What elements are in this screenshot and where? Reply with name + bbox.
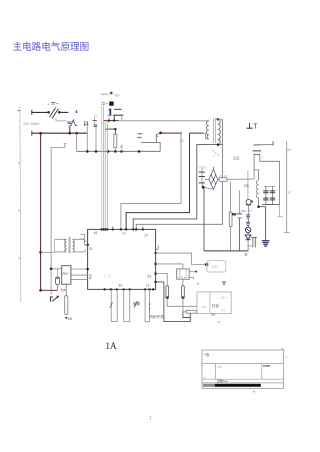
relay coil L2 lower winding (254, 154, 260, 155)
svg-text:32: 32 (89, 247, 93, 251)
T2 left edge (54, 239, 56, 252)
node (138, 150, 141, 153)
svg-text:(+V: (+V (240, 209, 244, 213)
S4 dashes (149, 303, 151, 312)
svg-text:灯丝: 灯丝 (212, 303, 219, 308)
capacitor C6 cylinder (182, 286, 185, 299)
svg-text:1A: 1A (105, 341, 117, 351)
U2 bottom pin wire (65, 284, 67, 296)
svg-text:A2: A2 (180, 139, 184, 143)
wire (260, 155, 280, 205)
node (257, 205, 260, 208)
wire (259, 207, 266, 241)
svg-text:A: A (285, 355, 287, 359)
K1 pin 2 (189, 277, 193, 279)
capacitor C2 (93, 120, 97, 122)
node (202, 186, 205, 189)
rail tick 2 (18, 162, 21, 164)
wire (114, 129, 116, 134)
diode D3 (245, 235, 251, 240)
light link (108, 116, 110, 121)
node (68, 132, 71, 135)
wire pin out (156, 274, 168, 286)
resistor R2 (219, 178, 227, 181)
node 18 (65, 317, 67, 319)
svg-text:220 50Hz: 220 50Hz (23, 122, 39, 126)
left border rail (19, 107, 22, 303)
svg-text:T值: T值 (204, 352, 210, 357)
switch loop S4 (145, 289, 150, 321)
S2 blade (110, 302, 113, 308)
bars beside 1 (114, 109, 122, 110)
tube box B2 (197, 292, 231, 314)
lamp H1 (245, 227, 250, 232)
divider (202, 382, 284, 384)
svg-text:九B: 九B (61, 287, 66, 292)
T2 right lead top (73, 239, 88, 245)
svg-text:×)(=: ×)(= (114, 93, 120, 97)
wire T2 feed (41, 251, 55, 253)
T2 right winding (73, 239, 75, 252)
ground T symbol (247, 127, 253, 129)
battery bars (138, 132, 143, 135)
node (95, 150, 98, 153)
left vertical wire (maroon) (40, 133, 42, 290)
svg-text:X: X (244, 252, 247, 257)
capacitor C4 (238, 190, 240, 213)
svg-text:耳显: 耳显 (233, 156, 240, 160)
wire bottom rail (204, 250, 248, 252)
svg-text:凡M: 凡M (62, 272, 68, 276)
svg-text:≡a: ≡a (202, 305, 206, 309)
relay coil L2 top winding (254, 145, 260, 146)
probe arrow (50, 297, 53, 302)
svg-text:+VDD: +VDD (199, 165, 207, 169)
T2 core (68, 237, 70, 254)
bus B wire (77, 150, 161, 152)
wire L to bus B start (51, 144, 65, 295)
transformer T2 left lead top (55, 238, 66, 240)
node (39, 251, 42, 254)
wire 3 nested (133, 145, 222, 230)
node (75, 132, 78, 135)
node (217, 118, 220, 121)
node (47, 111, 50, 114)
capacitor C1 (84, 121, 86, 126)
wire 2 nested dark (126, 133, 189, 229)
svg-text:同步开关: 同步开关 (149, 314, 164, 319)
wire (230, 227, 232, 251)
pin stub (112, 226, 114, 229)
dot (253, 391, 255, 393)
rounded box K2 (207, 261, 226, 272)
bus B corner up (141, 143, 160, 152)
scale bar gray (203, 384, 215, 387)
tick (181, 131, 183, 135)
svg-text:1ΩL: 1ΩL (244, 184, 250, 188)
divider (215, 364, 217, 380)
diode chain wire (247, 171, 249, 200)
node (159, 132, 162, 135)
cap bank top bus (264, 185, 275, 187)
svg-text:T: T (253, 124, 258, 131)
svg-text:电源: 电源 (133, 301, 141, 306)
block U2 (62, 266, 71, 285)
switch linkage wire (56, 118, 67, 121)
corner tick (281, 348, 284, 350)
svg-text:16: 16 (94, 231, 98, 235)
divider (202, 363, 284, 365)
switch S1 blade 2 (52, 109, 58, 119)
wire (190, 132, 204, 134)
svg-text:18: 18 (68, 317, 72, 321)
wire (247, 240, 249, 251)
node (86, 150, 89, 153)
F tick (156, 134, 160, 143)
wire (247, 205, 249, 214)
wire (218, 118, 223, 120)
divider (202, 378, 284, 380)
K1 pin (189, 271, 195, 273)
node (113, 119, 115, 121)
bar (246, 204, 251, 206)
svg-text:PWM: PWM (263, 364, 271, 368)
resistor R3 drop (230, 181, 232, 212)
bracket legs (251, 236, 257, 238)
ribbon wire 2 (102, 106, 104, 230)
symbol bars row (102, 101, 106, 104)
wire maroon to transformer (161, 132, 182, 134)
wire (218, 179, 219, 181)
node (114, 128, 116, 130)
C8 plates (270, 191, 275, 200)
capacitor C3 stack (201, 169, 203, 172)
stub (121, 148, 123, 151)
node (108, 119, 110, 121)
switch loop S3 (124, 289, 130, 321)
inductor L3 vertical winding (256, 180, 258, 198)
wire (247, 226, 249, 228)
resistor R3 (229, 212, 232, 226)
rail tick 3 (18, 210, 21, 212)
capacitor C9 cylinder (56, 277, 60, 284)
svg-text:GN: GN (218, 365, 222, 369)
transformer T1 right winding (218, 119, 221, 144)
svg-text:1 2): 1 2) (104, 273, 112, 278)
left bracket wire (80, 234, 84, 239)
wire (57, 269, 59, 277)
wire (205, 179, 209, 181)
right pin nodes (154, 252, 157, 283)
node (58, 111, 61, 114)
transformer T1 primary lead top (119, 120, 209, 122)
svg-text:1: 1 (149, 416, 152, 422)
transistor Q1 (246, 199, 251, 204)
wire (32, 111, 48, 113)
transformer T1 core (213, 118, 215, 143)
wire 1 nested (121, 134, 181, 229)
wire (260, 144, 273, 146)
wire (258, 198, 260, 207)
svg-text:2W: 2W (211, 313, 216, 317)
title block outer (202, 350, 284, 388)
wire bridge down (203, 187, 205, 251)
tick (64, 143, 67, 145)
svg-text:E: E (288, 191, 291, 195)
dot trail (213, 150, 219, 156)
wire (253, 155, 255, 179)
wire 4 nested (136, 119, 222, 229)
rail tick 4 (18, 257, 21, 259)
svg-text:L: L (48, 102, 50, 106)
IC U1 body (88, 229, 156, 289)
black block (109, 102, 113, 106)
switch S1 blade (49, 108, 55, 118)
svg-text:+VD: +VD (247, 208, 252, 212)
ribbon wire 3 (104, 121, 106, 230)
wire maroon bottom (41, 289, 58, 291)
wire (104, 120, 119, 122)
core bar (253, 149, 262, 152)
wire (247, 233, 249, 235)
fuse row wire (101, 93, 109, 95)
divider (261, 364, 263, 380)
ground G1 (262, 241, 270, 246)
capacitor C8 column (272, 186, 274, 204)
node (86, 268, 89, 271)
wire (95, 127, 97, 152)
wire output (227, 178, 254, 181)
svg-text:V: V (197, 282, 200, 286)
rail tick 1 (18, 109, 21, 111)
right pin tick (156, 248, 159, 250)
node (217, 143, 220, 146)
T2 left winding (65, 239, 67, 252)
terminal X2 (75, 110, 77, 113)
varistor drop wire (69, 126, 71, 133)
svg-text:2w 4Ω: 2w 4Ω (219, 174, 227, 178)
switch label bars (51, 101, 55, 104)
svg-text:13: 13 (146, 284, 150, 288)
diode D2 (205, 263, 208, 266)
cap bank bottom bus (262, 203, 280, 205)
terminal tick (272, 141, 274, 145)
wire pin out (156, 263, 183, 265)
bus A terminal (31, 131, 33, 136)
wire (254, 170, 259, 180)
zener Z1 bars (246, 215, 250, 218)
wire (51, 268, 62, 270)
wire (114, 148, 116, 152)
svg-text:43: 43 (122, 232, 126, 236)
node (50, 268, 53, 271)
C7 plates (263, 191, 268, 200)
svg-text:33: 33 (119, 284, 123, 288)
wire step to coil (204, 133, 209, 139)
T2 bottom lead left (55, 251, 66, 253)
capacitor C7 column (265, 186, 267, 204)
wire maroon mid (105, 128, 116, 130)
left pin wires to U2 (71, 268, 88, 270)
node (86, 244, 89, 247)
transformer T1 left winding (207, 121, 209, 139)
ribbon wire 4 (106, 121, 108, 230)
svg-text:s]: s] (95, 113, 98, 117)
zener Z2 bars (246, 222, 250, 225)
scale bar black (215, 384, 261, 387)
svg-text:53: 53 (147, 274, 151, 278)
wire from bus A down to bus B (76, 133, 78, 151)
switch loop S2 (111, 289, 117, 321)
node (39, 289, 42, 292)
wire pin 53 out (156, 253, 205, 264)
arrow (134, 302, 137, 308)
right rail E (286, 141, 288, 233)
wire (204, 187, 213, 189)
svg-text:17: 17 (144, 233, 148, 237)
svg-text:⌐ 11A: ⌐ 11A (219, 296, 227, 300)
resistor R4 (186, 310, 196, 313)
bottom pin nodes (103, 288, 154, 290)
node (107, 150, 110, 153)
wire (247, 219, 249, 222)
U1 top pin nodes (100, 228, 144, 230)
relay K1 (177, 269, 190, 279)
ribbon wire 1 (101, 106, 103, 230)
bus A wire (32, 132, 88, 134)
pin stub (84, 240, 87, 242)
wire stub (279, 204, 281, 216)
digit 1 (108, 109, 112, 116)
wire pin out (156, 282, 191, 322)
node (39, 132, 42, 135)
dark bar (113, 114, 123, 116)
wire (182, 299, 184, 312)
svg-text:2: 2 (89, 275, 92, 281)
capacitor C5 cylinder (166, 286, 169, 299)
wire (182, 279, 184, 286)
wire (183, 312, 190, 318)
varistor F1 peak (69, 120, 77, 126)
node (114, 150, 117, 153)
wire (60, 111, 68, 113)
varistor F1 bars (67, 121, 71, 124)
resistor R1 (114, 134, 117, 148)
input terminal X1 (31, 110, 33, 115)
triangle glyph (223, 282, 226, 285)
wire (86, 126, 88, 151)
svg-text:2N50: 2N50 (211, 265, 218, 269)
svg-text:/w: /w (216, 320, 221, 324)
svg-text:VT: VT (221, 309, 225, 313)
resistor R5 (65, 296, 68, 315)
fuse row star (110, 92, 113, 95)
wire (167, 299, 197, 307)
bridge rectifier D1 (209, 167, 218, 190)
T2 right lead bottom (73, 251, 85, 253)
node (120, 150, 123, 153)
svg-text:主电路电气原理图: 主电路电气原理图 (13, 41, 90, 53)
wire (57, 285, 59, 291)
